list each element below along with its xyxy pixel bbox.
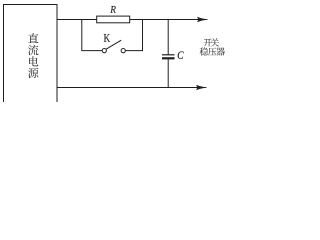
label 开关稳压器 (switching regulator) (200, 38, 225, 55)
label C (178, 51, 184, 58)
DC power source box (直流电源) (4, 5, 58, 108)
label R (110, 6, 116, 13)
arrow bottom output (196, 85, 206, 90)
label K (104, 34, 110, 42)
wire switch branch right drop (node B) (125, 20, 142, 51)
wire capacitor bottom lead (167, 59, 169, 87)
wire switch branch left drop (node A) (82, 20, 102, 51)
label 直流电源 (vertical) (28, 33, 38, 78)
switch K (open) (102, 40, 125, 53)
capacitor C (162, 55, 175, 59)
wire bottom rail from source to output (57, 87, 205, 89)
wire top rail from source to output (57, 19, 206, 21)
resistor R (97, 16, 130, 23)
arrow top output (197, 17, 207, 22)
wire capacitor top lead (167, 20, 169, 55)
